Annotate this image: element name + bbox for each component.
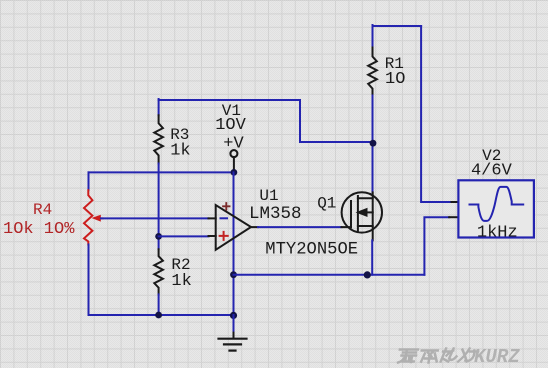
svg-text:U1: U1 [259, 187, 278, 205]
svg-text:4/6V: 4/6V [471, 162, 513, 181]
potentiometer R4 [84, 190, 92, 244]
wire: Q1 source lead [372, 226, 374, 240]
wire: bottom rail [89, 314, 234, 316]
V2 plus lead stub [452, 201, 459, 203]
transistor Q1 body arrow [367, 211, 373, 213]
transistor Q1 body circle [342, 192, 382, 232]
node: drain junction dot [370, 140, 377, 147]
svg-text:KURZ: KURZ [474, 346, 520, 368]
op-amp U1 triangle [216, 205, 251, 250]
op-amp plus input mark [220, 232, 228, 240]
wire: V2 minus riser [424, 217, 449, 274]
source V2 box [458, 180, 534, 237]
wire: R4 wiper to op-amp minus input [101, 217, 209, 219]
wire: R3 top lead [158, 99, 160, 115]
wire: R2 bottom to bottom rail [158, 294, 160, 315]
wire: R3 bottom down to R2 top [158, 164, 160, 250]
svg-text:R4: R4 [33, 201, 52, 219]
op-amp U1 input lead stubs [209, 218, 216, 236]
wire: R4 bottom to bottom rail [88, 245, 90, 316]
wire: R1 top lead [372, 25, 374, 47]
op-amp U1 output lead stub [251, 226, 258, 228]
wire: ground lead [233, 315, 235, 333]
wire: V2 plus vertical drop [421, 26, 451, 202]
node: +V junction dot [231, 169, 238, 176]
wire: op-amp output to Q1 gate [258, 226, 342, 228]
svg-text:1O: 1O [385, 70, 405, 89]
wire: +V rail [89, 171, 234, 173]
source V2 sine wave [470, 187, 524, 221]
node: Q1 source junction dot [364, 271, 371, 278]
wire: R1 bottom to Q1 drain [372, 96, 374, 193]
transistor Q1 gate bar [350, 201, 352, 227]
ground [219, 338, 247, 340]
resistor R3 [154, 115, 163, 163]
transistor Q1 drain/source internal leads [358, 198, 373, 226]
op-amp minus input mark [221, 217, 228, 219]
svg-text:Q1: Q1 [317, 195, 336, 213]
resistor R1 [368, 48, 377, 96]
transistor Q1 channel bar [357, 196, 359, 231]
node: source node junction on supply wire [230, 271, 237, 278]
wire: +V jog to drain node [159, 100, 373, 142]
svg-text:1Ok 1O%: 1Ok 1O% [3, 220, 75, 239]
transistor Q1 drain stub [372, 192, 374, 198]
svg-text:1k: 1k [171, 272, 191, 291]
svg-text:1k: 1k [170, 141, 190, 160]
resistor R2 [154, 249, 163, 294]
transistor Q1 gate lead [342, 226, 352, 228]
watermark [398, 349, 478, 363]
svg-text:1kHz: 1kHz [477, 223, 518, 242]
potentiometer R4 wiper arrow [100, 217, 103, 219]
svg-text:1OV: 1OV [215, 116, 246, 135]
svg-text:LM358: LM358 [249, 204, 302, 224]
node: ground junction dot [230, 312, 237, 319]
node: R2 bottom rail dot [155, 312, 162, 319]
wire: op-amp supply vertical through triangle to ground rail [233, 172, 235, 315]
svg-text:MTY2ON5OE: MTY2ON5OE [265, 241, 358, 260]
wire: divider to op-amp plus input [159, 235, 209, 237]
wire: R4 top lead [88, 172, 90, 190]
op-amp supply plus mark [223, 203, 229, 209]
V2 minus lead stub [449, 216, 458, 218]
power terminal +V circle [230, 150, 237, 157]
wire: top horizontal R1-top to V2-plus [373, 25, 422, 27]
node: divider junction dot [155, 233, 162, 240]
wire: +V stub [233, 157, 235, 169]
wire: source rail to V2 minus [234, 274, 425, 276]
